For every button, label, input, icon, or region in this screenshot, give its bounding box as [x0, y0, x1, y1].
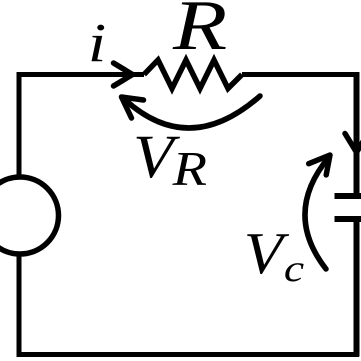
- svg-text:R: R: [172, 142, 208, 196]
- wire left vertical lower segment: [17, 253, 22, 357]
- voltage arc V_c beside capacitor: [305, 157, 329, 269]
- capacitor C bottom plate: [335, 216, 361, 222]
- wire top-right horizontal segment: [242, 72, 359, 77]
- current arrowhead i on top wire: [114, 63, 133, 86]
- voltage source circle: [0, 177, 59, 254]
- arrowhead of V_R arc: [122, 97, 144, 118]
- resistor R: [144, 60, 242, 89]
- arrowhead of V_c arc: [309, 155, 330, 175]
- wire top-left horizontal segment: [19, 72, 144, 77]
- wire right vertical upper segment: [354, 72, 360, 196]
- wire bottom horizontal segment: [19, 352, 359, 357]
- wire right vertical lower segment: [354, 219, 360, 357]
- svg-text:R: R: [172, 0, 227, 65]
- current arrowhead on right wire above capacitor: [345, 134, 361, 153]
- capacitor C top plate: [335, 193, 361, 199]
- svg-text:c: c: [284, 248, 305, 290]
- svg-text:i: i: [88, 13, 106, 74]
- svg-text:V: V: [244, 221, 290, 286]
- voltage arc V_R under resistor: [123, 96, 260, 128]
- wire left vertical upper segment: [17, 72, 22, 178]
